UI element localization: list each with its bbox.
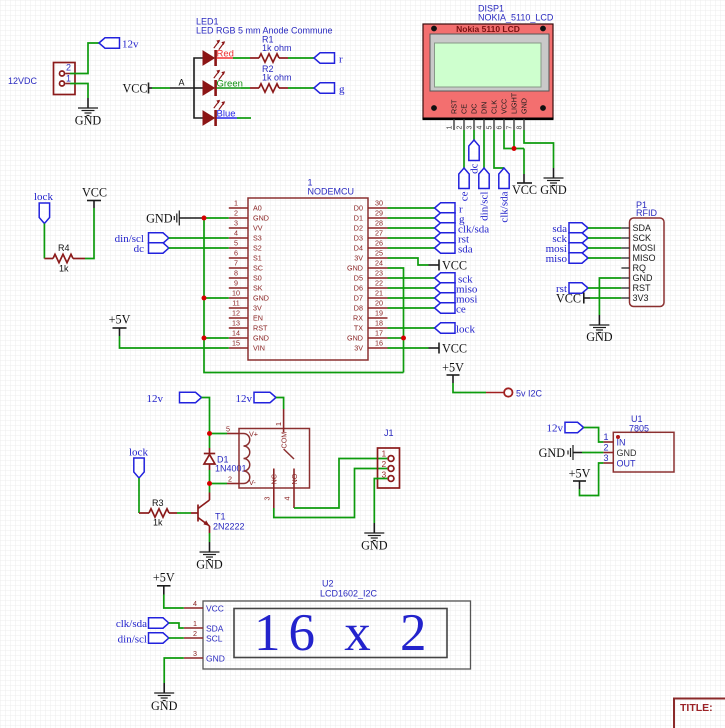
svg-text:GND: GND: [253, 294, 269, 303]
NODEMCU right pin names: [347, 204, 363, 353]
net flag g: [314, 83, 345, 96]
svg-text:1k: 1k: [153, 518, 163, 528]
svg-text:12v: 12v: [547, 423, 564, 435]
svg-text:30: 30: [375, 199, 383, 208]
module P1 RFID: [630, 200, 665, 307]
svg-text:VV: VV: [253, 224, 263, 233]
svg-text:GND: GND: [253, 214, 269, 223]
svg-text:16 x 2: 16 x 2: [254, 604, 435, 662]
svg-text:GND: GND: [75, 114, 102, 128]
svg-text:D1: D1: [354, 214, 363, 223]
wire D2 to flag clk/sda: [388, 227, 435, 229]
svg-text:RST: RST: [450, 99, 459, 114]
svg-text:GND: GND: [540, 183, 567, 197]
regulator U1 7805: [603, 414, 674, 472]
net flag lock (top left): [34, 191, 53, 224]
svg-text:+5V: +5V: [153, 571, 175, 585]
svg-text:12: 12: [232, 309, 240, 318]
svg-text:1: 1: [447, 126, 454, 130]
wire D1 to flag g: [388, 217, 435, 219]
svg-text:4: 4: [477, 126, 484, 130]
wire collector to junction: [209, 484, 211, 493]
svg-text:MISO: MISO: [633, 253, 656, 263]
U2 pin stubs: [184, 608, 203, 658]
svg-text:1: 1: [603, 432, 608, 442]
wire 12v to IN: [584, 428, 604, 443]
IC NODEMCU (designator 1): [248, 178, 368, 361]
net flag sck (RFID): [552, 233, 588, 245]
wire red cathode to R1: [233, 57, 250, 59]
svg-text:LCD1602_I2C: LCD1602_I2C: [320, 589, 378, 599]
svg-text:17: 17: [375, 329, 383, 338]
port GND (pin 2): [146, 211, 204, 226]
svg-text:12v: 12v: [122, 39, 139, 51]
svg-text:V+: V+: [249, 430, 258, 439]
svg-text:3: 3: [603, 453, 608, 463]
svg-text:clk/sda: clk/sda: [116, 618, 147, 630]
wire dc to S2: [169, 247, 229, 249]
svg-text:GND: GND: [520, 98, 529, 114]
svg-text:VCC: VCC: [512, 183, 537, 197]
svg-text:1k ohm: 1k ohm: [262, 43, 292, 53]
svg-text:S0: S0: [253, 274, 262, 283]
svg-text:23: 23: [375, 269, 383, 278]
net flag din/scl (vertical): [479, 168, 491, 221]
power +5V (U2): [153, 571, 175, 595]
wire D3 to flag rst: [388, 237, 435, 239]
svg-text:12v: 12v: [147, 393, 164, 405]
svg-text:MOSI: MOSI: [633, 243, 656, 253]
svg-text:RQ: RQ: [633, 263, 647, 273]
svg-text:RFID: RFID: [636, 208, 657, 218]
power +5V (VIN): [109, 313, 131, 337]
svg-text:LIGHT: LIGHT: [510, 92, 519, 114]
junction (12v / D1 cathode / coil V+): [207, 431, 212, 436]
wire din/scl to SCL: [169, 637, 184, 639]
svg-text:S1: S1: [253, 254, 262, 263]
junction pin17: [401, 336, 406, 341]
svg-text:1k ohm: 1k ohm: [262, 73, 292, 83]
svg-text:SCK: SCK: [633, 233, 652, 243]
svg-text:13: 13: [232, 319, 240, 328]
svg-text:20: 20: [375, 299, 383, 308]
wire junction to coil V+: [210, 433, 228, 435]
svg-text:3V: 3V: [354, 344, 363, 353]
net flag rst (right of NODEMCU): [435, 233, 469, 246]
svg-text:D0: D0: [354, 204, 363, 213]
svg-text:D6: D6: [354, 284, 363, 293]
U2 pin names: [206, 604, 225, 664]
wire down to VCC port: [523, 149, 525, 175]
wire +5V to OUT: [580, 463, 604, 496]
wire D8 to flag ce: [388, 307, 435, 309]
NODEMCU left pin numbers 1-15: [232, 199, 240, 348]
svg-text:2N2222: 2N2222: [213, 522, 245, 532]
net flag lock (right of NODEMCU): [435, 323, 476, 336]
svg-text:DIN: DIN: [480, 102, 489, 114]
net flag clk/sda (right of NODEMCU): [435, 223, 490, 236]
svg-text:SDA: SDA: [206, 624, 224, 634]
wire GND pin8: [524, 130, 554, 168]
NODEMCU left pin stubs: [229, 208, 248, 348]
wire junction to pin10: [204, 297, 229, 299]
wire GND pin17: [388, 337, 404, 339]
wire +5V to U2 VCC: [164, 595, 184, 609]
LED1 labels: [196, 17, 333, 36]
svg-text:11: 11: [232, 299, 239, 308]
svg-text:r: r: [339, 54, 343, 66]
svg-text:2: 2: [193, 629, 197, 638]
svg-text:miso: miso: [546, 253, 568, 265]
wire mosi to MOSI: [588, 247, 621, 249]
svg-text:GND: GND: [539, 446, 566, 460]
svg-text:U1: U1: [631, 414, 643, 424]
svg-text:VCC: VCC: [122, 82, 147, 96]
svg-text:dc: dc: [134, 243, 145, 255]
svg-text:D4: D4: [354, 244, 363, 253]
svg-text:NOKIA_5110_LCD: NOKIA_5110_LCD: [478, 13, 554, 23]
LED1 red chip: [203, 40, 234, 66]
svg-text:R4: R4: [58, 243, 70, 253]
net flag rst (RFID): [556, 283, 588, 295]
svg-text:2: 2: [66, 63, 71, 73]
display U2 LCD1602_I2C: [203, 579, 471, 670]
wire 3V pin16 to VCC port: [388, 347, 429, 349]
svg-text:7: 7: [234, 259, 238, 268]
svg-text:1: 1: [274, 422, 283, 426]
svg-text:VCC: VCC: [442, 342, 467, 356]
svg-text:S3: S3: [253, 234, 262, 243]
net flag miso (RFID): [546, 253, 588, 265]
svg-text:GND: GND: [633, 273, 654, 283]
svg-text:RX: RX: [353, 314, 363, 323]
svg-text:5: 5: [226, 425, 230, 434]
port VCC (pin 25): [429, 259, 468, 273]
svg-text:28: 28: [375, 219, 383, 228]
svg-text:3V: 3V: [354, 254, 363, 263]
svg-text:NC: NC: [270, 474, 279, 484]
svg-text:VCC: VCC: [442, 259, 467, 273]
svg-text:7: 7: [507, 126, 514, 130]
wire NC to J1 pin2: [274, 469, 388, 518]
svg-text:D3: D3: [354, 234, 363, 243]
svg-text:D5: D5: [354, 274, 363, 283]
svg-text:10: 10: [232, 289, 240, 298]
ground (U2): [151, 683, 178, 713]
DISP1 pin names: [450, 92, 529, 114]
port VCC (pin 16): [429, 342, 468, 356]
svg-text:2: 2: [228, 475, 232, 484]
wire R2 to flag g: [288, 87, 314, 89]
wire DIN to flag din/scl: [483, 130, 485, 168]
svg-text:1: 1: [66, 74, 71, 84]
wire GND pin24 down right bus: [388, 268, 404, 373]
wire CE to flag ce: [463, 130, 465, 168]
svg-text:D2: D2: [354, 224, 363, 233]
svg-text:6: 6: [497, 126, 504, 130]
LED1 blue chip: [203, 100, 237, 126]
wire sck to SCK: [588, 237, 621, 239]
wire D4 to flag sda: [388, 247, 435, 249]
net flag din/scl (left of NODEMCU): [115, 233, 169, 245]
svg-text:27: 27: [375, 229, 383, 238]
wire U2 GND to ground: [164, 658, 184, 683]
wire D6 to flag miso: [388, 287, 435, 289]
svg-text:SDA: SDA: [633, 223, 652, 233]
svg-text:16: 16: [375, 339, 383, 348]
transistor T1 2N2222: [191, 493, 245, 534]
wire GND port to U1 pin2: [582, 452, 603, 454]
wire TX to flag lock: [388, 327, 435, 329]
port GND (U1): [539, 445, 582, 460]
svg-text:8: 8: [517, 126, 524, 130]
svg-text:5: 5: [234, 239, 238, 248]
svg-text:SC: SC: [253, 264, 263, 273]
wire junction to coil V-: [210, 483, 228, 485]
svg-text:D8: D8: [354, 304, 363, 313]
resistor R3 1k: [139, 498, 177, 528]
svg-text:GND: GND: [151, 699, 178, 713]
resistor R2 1k ohm: [250, 64, 292, 92]
svg-text:U2: U2: [322, 579, 334, 589]
wire VCC to LED pin A: [152, 87, 170, 89]
svg-text:R3: R3: [152, 498, 164, 508]
wire ground bus bottom: [204, 218, 404, 373]
svg-text:1: 1: [193, 619, 197, 628]
net flag miso: [435, 283, 478, 296]
junction pin2: [202, 216, 207, 221]
net flag ce (right of NODEMCU): [435, 303, 466, 316]
wire 3V pin25 to VCC port: [388, 258, 429, 265]
wire miso to MISO: [588, 257, 621, 259]
svg-text:S2: S2: [253, 244, 262, 253]
net flag 12v (relay coil): [147, 392, 202, 405]
wire R1 to flag r: [288, 57, 314, 59]
wire clk/sda to SDA: [169, 623, 184, 628]
net flag mosi: [435, 293, 478, 306]
wire blue cathode stub: [237, 117, 251, 119]
port VCC (below DISP1): [512, 174, 537, 197]
svg-text:3V3: 3V3: [633, 293, 649, 303]
svg-text:g: g: [339, 84, 345, 96]
svg-text:COM: COM: [280, 432, 289, 449]
wire +5V to 5v I2C: [453, 383, 486, 393]
net flag r: [314, 53, 343, 66]
svg-text:GND: GND: [347, 334, 363, 343]
svg-text:T1: T1: [215, 512, 226, 522]
svg-text:14: 14: [232, 329, 240, 338]
svg-text:3: 3: [193, 649, 197, 658]
junction pin14: [202, 336, 207, 341]
svg-text:2: 2: [382, 459, 387, 469]
svg-text:D7: D7: [354, 294, 363, 303]
svg-text:V-: V-: [249, 478, 256, 487]
net flag ce: [459, 168, 471, 201]
svg-text:1: 1: [382, 449, 387, 459]
svg-text:GND: GND: [253, 334, 269, 343]
net flag dc: [469, 140, 481, 174]
svg-text:clk/sda: clk/sda: [499, 191, 511, 222]
U2 pin numbers: [193, 599, 197, 658]
svg-text:+5V: +5V: [569, 467, 591, 481]
wire CLK to flag clk/sda: [494, 130, 504, 168]
svg-text:din/scl: din/scl: [479, 192, 491, 221]
svg-text:3: 3: [234, 219, 238, 228]
svg-text:SK: SK: [253, 284, 263, 293]
svg-text:din/scl: din/scl: [118, 634, 147, 646]
net flag 12v: [99, 38, 139, 51]
svg-text:26: 26: [375, 239, 383, 248]
svg-text:1k: 1k: [59, 264, 69, 274]
ground (J1): [361, 523, 388, 553]
svg-text:NO: NO: [290, 473, 299, 484]
svg-text:5: 5: [487, 126, 494, 130]
svg-text:GND: GND: [196, 558, 223, 572]
svg-text:GND: GND: [617, 448, 638, 458]
svg-text:19: 19: [375, 309, 383, 318]
svg-text:1: 1: [234, 199, 238, 208]
wire VCC to 3V3: [590, 297, 621, 299]
junction pin10: [202, 296, 207, 301]
net flag clk/sda (vertical): [499, 168, 511, 223]
DISP1 pin numbers: [447, 126, 524, 130]
svg-text:A0: A0: [253, 204, 262, 213]
svg-text:6: 6: [234, 249, 238, 258]
svg-text:3: 3: [467, 126, 474, 130]
junction (pin6/pin7): [512, 146, 517, 151]
connector 12VDC: [8, 63, 75, 95]
net flag sck: [435, 273, 474, 286]
svg-text:SCL: SCL: [206, 634, 223, 644]
net flag g (right of NODEMCU): [435, 213, 465, 226]
diode D1 1N4001: [204, 434, 247, 484]
net flag r (right of NODEMCU): [435, 203, 463, 216]
net flag 12v (U1 input): [547, 422, 584, 434]
svg-text:IN: IN: [617, 438, 626, 448]
net flag lock (relay input): [129, 447, 148, 479]
wire din/scl to S3: [169, 237, 229, 239]
P1 pin stubs: [621, 228, 629, 298]
NODEMCU left pin names: [253, 204, 269, 353]
svg-text:CLK: CLK: [490, 100, 499, 114]
svg-text:25: 25: [375, 249, 383, 258]
svg-text:12VDC: 12VDC: [8, 76, 38, 86]
wire R3 to base: [177, 512, 191, 514]
wire pin2 to 12v flag: [70, 43, 99, 74]
svg-text:lock: lock: [34, 191, 53, 203]
svg-text:VCC: VCC: [206, 604, 224, 614]
svg-text:22: 22: [375, 279, 383, 288]
svg-text:24: 24: [375, 259, 383, 268]
wire 12v to coil junction: [202, 398, 210, 434]
svg-text:4: 4: [283, 497, 292, 501]
svg-text:RST: RST: [633, 283, 652, 293]
svg-text:OUT: OUT: [617, 459, 637, 469]
svg-text:4: 4: [234, 229, 238, 238]
ground (T1 emitter): [196, 542, 223, 572]
svg-text:EN: EN: [253, 314, 263, 323]
node 5v I2C: [486, 388, 543, 398]
net flag 12v (relay COM): [236, 392, 277, 405]
wire J1 pin3 to ground: [374, 479, 387, 524]
wire LIGHT pin7: [513, 130, 515, 149]
net flag clk/sda (U2): [116, 618, 169, 630]
DISP1 NOKIA_5110_LCD labels: [478, 4, 554, 23]
svg-text:2: 2: [234, 209, 238, 218]
wire D0 to flag r: [388, 207, 435, 209]
svg-text:VIN: VIN: [253, 344, 265, 353]
wire D7 to flag mosi: [388, 297, 435, 299]
svg-text:8: 8: [234, 269, 238, 278]
svg-text:1N4001: 1N4001: [215, 464, 247, 474]
svg-text:Nokia 5110 LCD: Nokia 5110 LCD: [456, 24, 520, 34]
svg-text:2: 2: [457, 126, 464, 130]
power +5V to 5v I2C callout: [442, 361, 464, 384]
wire lock to R3: [138, 478, 140, 513]
svg-text:GND: GND: [361, 539, 388, 553]
ground (below DISP1): [540, 168, 567, 197]
svg-text:+5V: +5V: [442, 361, 464, 375]
svg-text:DC: DC: [470, 104, 479, 114]
wire green cathode to R2: [241, 87, 250, 89]
LED1 green chip: [203, 70, 243, 96]
wire lock to R4: [43, 224, 45, 259]
power +5V (U1 output): [569, 467, 591, 490]
ground (RFID): [586, 315, 613, 344]
DISP1 board: [423, 24, 554, 119]
svg-text:3V: 3V: [253, 304, 262, 313]
svg-text:12v: 12v: [236, 393, 253, 405]
relay (coil + contacts): [226, 409, 310, 508]
wire pin1 to ground: [70, 84, 88, 99]
svg-text:dc: dc: [469, 163, 481, 174]
svg-text:18: 18: [375, 319, 383, 328]
svg-text:15: 15: [232, 339, 240, 348]
svg-text:2: 2: [603, 443, 608, 453]
svg-text:TITLE:: TITLE:: [680, 702, 713, 714]
wire DC to flag dc: [473, 130, 475, 140]
svg-text:29: 29: [375, 209, 383, 218]
NODEMCU right pin stubs: [368, 208, 388, 348]
svg-text:21: 21: [375, 289, 383, 298]
title block: [674, 699, 725, 728]
wire VCC pin6 jog: [504, 130, 524, 149]
svg-text:ce: ce: [456, 304, 466, 316]
wire emitter to ground: [209, 533, 211, 542]
net flag sda (RFID): [552, 223, 588, 235]
net flag dc (left of NODEMCU): [134, 243, 169, 255]
svg-text:sda: sda: [458, 244, 473, 256]
svg-text:CE: CE: [460, 104, 469, 114]
resistor R1 1k ohm: [250, 35, 292, 63]
resistor R4 1k: [44, 243, 85, 274]
svg-text:GND: GND: [206, 654, 225, 664]
svg-text:NODEMCU: NODEMCU: [308, 187, 355, 197]
junction (D1 anode / coil V- / collector): [207, 481, 212, 486]
svg-text:TX: TX: [354, 324, 363, 333]
port VCC (R4 pullup): [82, 186, 107, 209]
svg-text:lock: lock: [129, 447, 148, 459]
wire D5 to flag sck: [388, 277, 435, 279]
svg-text:+5V: +5V: [109, 313, 131, 327]
svg-text:VCC: VCC: [556, 292, 581, 306]
DISP1 pin stubs: [454, 119, 524, 130]
wire NO to J1 pin1: [294, 459, 387, 509]
svg-text:GND: GND: [586, 330, 613, 344]
svg-text:VCC: VCC: [82, 186, 107, 200]
wire R4 to VCC: [85, 208, 94, 259]
svg-text:lock: lock: [456, 324, 475, 336]
